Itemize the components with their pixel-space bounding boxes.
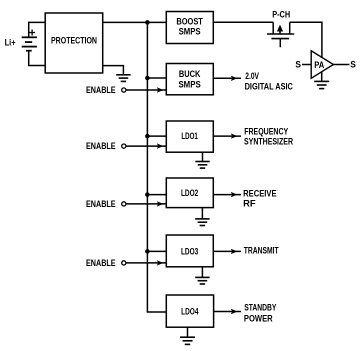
svg-text:ENABLE: ENABLE xyxy=(86,85,116,96)
wire PA ground lead xyxy=(321,72,323,82)
svg-text:ENABLE: ENABLE xyxy=(86,258,116,269)
wire bus to BUCK input xyxy=(147,77,166,79)
regulator block LDO4 xyxy=(166,295,213,327)
boost regulator block xyxy=(166,12,213,44)
svg-text:TRANSMIT: TRANSMIT xyxy=(244,245,279,256)
regulator block LDO2 xyxy=(166,178,213,208)
wire ENABLE to LDO1 xyxy=(126,145,166,147)
node bus junction LDO1 xyxy=(145,134,150,139)
wire PROTECTION ground lead xyxy=(103,66,124,75)
svg-text:STANDBY: STANDBY xyxy=(244,303,277,314)
wire LDO1 ground lead xyxy=(202,152,204,161)
node bus top junction xyxy=(145,20,150,25)
svg-text:LDO2: LDO2 xyxy=(181,188,198,199)
svg-text:LDO4: LDO4 xyxy=(181,307,199,318)
svg-text:SMPS: SMPS xyxy=(178,80,200,91)
node bus junction LDO3 xyxy=(145,249,150,254)
ground (LDO3) xyxy=(195,276,209,278)
svg-text:POWER: POWER xyxy=(244,313,273,324)
regulator block LDO1 xyxy=(166,121,213,152)
transistor Q1 P-CH MOSFET xyxy=(267,9,294,47)
wire BOOST output to P-CH FET source xyxy=(213,21,273,23)
svg-text:ENABLE: ENABLE xyxy=(86,141,116,152)
wire LDO3 ground lead xyxy=(201,267,203,278)
wire LDO1 output xyxy=(213,135,241,137)
ground (protection) xyxy=(116,74,130,76)
buck regulator block xyxy=(166,64,213,95)
wire battery negative to PROTECTION xyxy=(29,51,46,65)
wire bus end to LDO4 input xyxy=(147,311,167,313)
svg-text:S: S xyxy=(350,60,356,71)
svg-text:SMPS: SMPS xyxy=(179,27,201,38)
svg-text:Li+: Li+ xyxy=(5,38,16,49)
wire BUCK output xyxy=(213,77,241,79)
wire PA output xyxy=(333,64,349,66)
wire bus to LDO2 input xyxy=(147,194,166,196)
ground (LDO1) xyxy=(195,161,209,163)
wire battery positive to PROTECTION xyxy=(29,22,46,36)
svg-text:P-CH: P-CH xyxy=(272,9,290,20)
svg-text:SYNTHESIZER: SYNTHESIZER xyxy=(244,136,293,147)
svg-text:LDO3: LDO3 xyxy=(181,246,198,257)
node bus junction BUCK xyxy=(145,76,150,81)
main battery bus xyxy=(146,22,148,312)
wire LDO4 output xyxy=(214,311,241,313)
ground (LDO4) xyxy=(180,336,195,338)
wire LDO2 ground lead xyxy=(201,208,203,219)
svg-text:LDO1: LDO1 xyxy=(181,131,198,142)
svg-text:RF: RF xyxy=(243,199,256,210)
battery B1 xyxy=(22,30,37,51)
wire ENABLE to LDO2 xyxy=(126,203,166,205)
op-amp PA power amplifier xyxy=(311,51,333,79)
svg-text:PA: PA xyxy=(314,60,324,70)
svg-text:S: S xyxy=(295,60,301,71)
wire FET drain to PA supply xyxy=(290,22,322,57)
node bus junction LDO2 xyxy=(145,192,150,197)
wire ENABLE to LDO3 xyxy=(126,262,166,264)
wire LDO2 output xyxy=(213,194,241,196)
svg-text:DIGITAL ASIC: DIGITAL ASIC xyxy=(245,82,293,93)
wire bus to LDO1 input xyxy=(147,135,166,137)
wire ENABLE to BUCK xyxy=(126,89,166,91)
wire LDO4 ground lead xyxy=(187,327,189,337)
wire bus to LDO3 input xyxy=(147,250,166,252)
wire LDO3 output xyxy=(213,250,241,252)
svg-text:PROTECTION: PROTECTION xyxy=(51,36,97,47)
regulator block LDO3 xyxy=(166,235,213,267)
wire PA input xyxy=(302,64,311,66)
protection block U1 xyxy=(45,13,102,73)
ground (PA) xyxy=(314,80,329,82)
ground (LDO2) xyxy=(195,218,209,220)
svg-text:BUCK: BUCK xyxy=(179,69,201,80)
svg-text:ENABLE: ENABLE xyxy=(86,199,116,210)
wire PROTECTION to BOOST SMPS xyxy=(103,21,167,23)
